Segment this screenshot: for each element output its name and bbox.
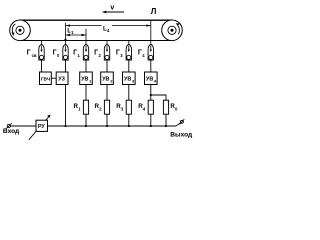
wire junction to R0 [151,95,166,100]
svg-text:ГВЧ: ГВЧ [41,76,51,82]
block УВ4 [145,72,158,85]
label Г0 [53,49,60,58]
wire R2 to bus [106,114,108,126]
svg-text:Г: Г [116,49,120,56]
svg-text:Вход: Вход [3,128,20,135]
dimension tick at Г1 [85,29,87,40]
resistor R2 [95,100,110,114]
junction dot УЗ-bus [64,125,66,127]
sensor head Г0 [63,41,68,73]
label L4 [103,25,110,33]
junction dot R0-bus [165,125,167,127]
svg-text:Г: Г [53,49,57,56]
belt bottom line [20,40,172,42]
block УВ2 [101,72,114,85]
svg-text:св: св [32,53,37,58]
junction dot Г3-bus [128,125,130,127]
velocity arrow v [102,5,124,14]
junction dot Г4-bus [150,125,152,127]
svg-text:Г: Г [138,49,142,56]
wire R0 to bus [165,114,167,126]
junction dot at Г0 tick [64,39,66,41]
block ГВЧ [40,72,52,85]
label L1 [67,28,74,36]
label Г1 [73,49,80,58]
resistor R4 [138,100,153,114]
dimension line L1 [66,34,87,36]
svg-text:Л: Л [151,7,157,16]
svg-text:Г: Г [94,49,98,56]
svg-text:v: v [110,5,114,12]
input terminal [6,123,12,129]
sensor head Г3 [126,41,131,73]
wire ГВЧ-УЗ [51,77,56,79]
junction node at R4 top [150,94,152,96]
wire R3 to bus [128,114,130,126]
input wire [10,125,36,127]
block РУ [36,120,48,131]
label Г3 [116,49,123,58]
svg-text:УВ: УВ [81,77,88,83]
junction dot Г1-bus [85,125,87,127]
block УЗ [56,72,68,85]
output terminal [176,119,184,126]
block УВ1 [80,72,93,85]
label Гсв [27,49,37,58]
sensor head Гсв [39,41,44,73]
resistor R0 [163,100,178,114]
resistor R1 [74,100,89,114]
sensor head Г4 [148,41,153,73]
label Г2 [94,49,101,58]
sensor head Г2 [104,41,109,73]
svg-text:Выход: Выход [170,131,193,138]
dimension tick at Г0 [65,23,67,40]
junction dot Г2-bus [106,125,108,127]
bus wire [48,125,177,127]
pulley left [10,20,31,41]
wire УЗ to bus [65,85,67,127]
belt top line [20,19,172,21]
dimension tick at Г4 [150,21,152,41]
dimension line L4 [66,24,151,26]
regulation arrow through РУ [29,115,51,140]
svg-text:Г: Г [27,49,31,56]
block УВ3 [123,72,136,85]
sensor head Г1 [83,41,88,73]
wire R1 to bus [85,114,87,126]
label Г4 [138,49,145,58]
wire УВ3 to R3 [128,85,130,101]
wire УВ4 to R4 [150,85,152,101]
svg-text:УВ: УВ [124,77,131,83]
resistor R3 [116,100,131,114]
svg-text:Г: Г [73,49,77,56]
wire УВ1 to R1 [85,85,87,101]
pulley right [162,20,183,41]
wire R4 to bus [150,114,152,126]
svg-text:УВ: УВ [102,77,109,83]
svg-text:УВ: УВ [146,77,153,83]
wire УВ2 to R2 [106,85,108,101]
svg-text:УЗ: УЗ [58,77,65,83]
svg-text:РУ: РУ [38,124,46,130]
